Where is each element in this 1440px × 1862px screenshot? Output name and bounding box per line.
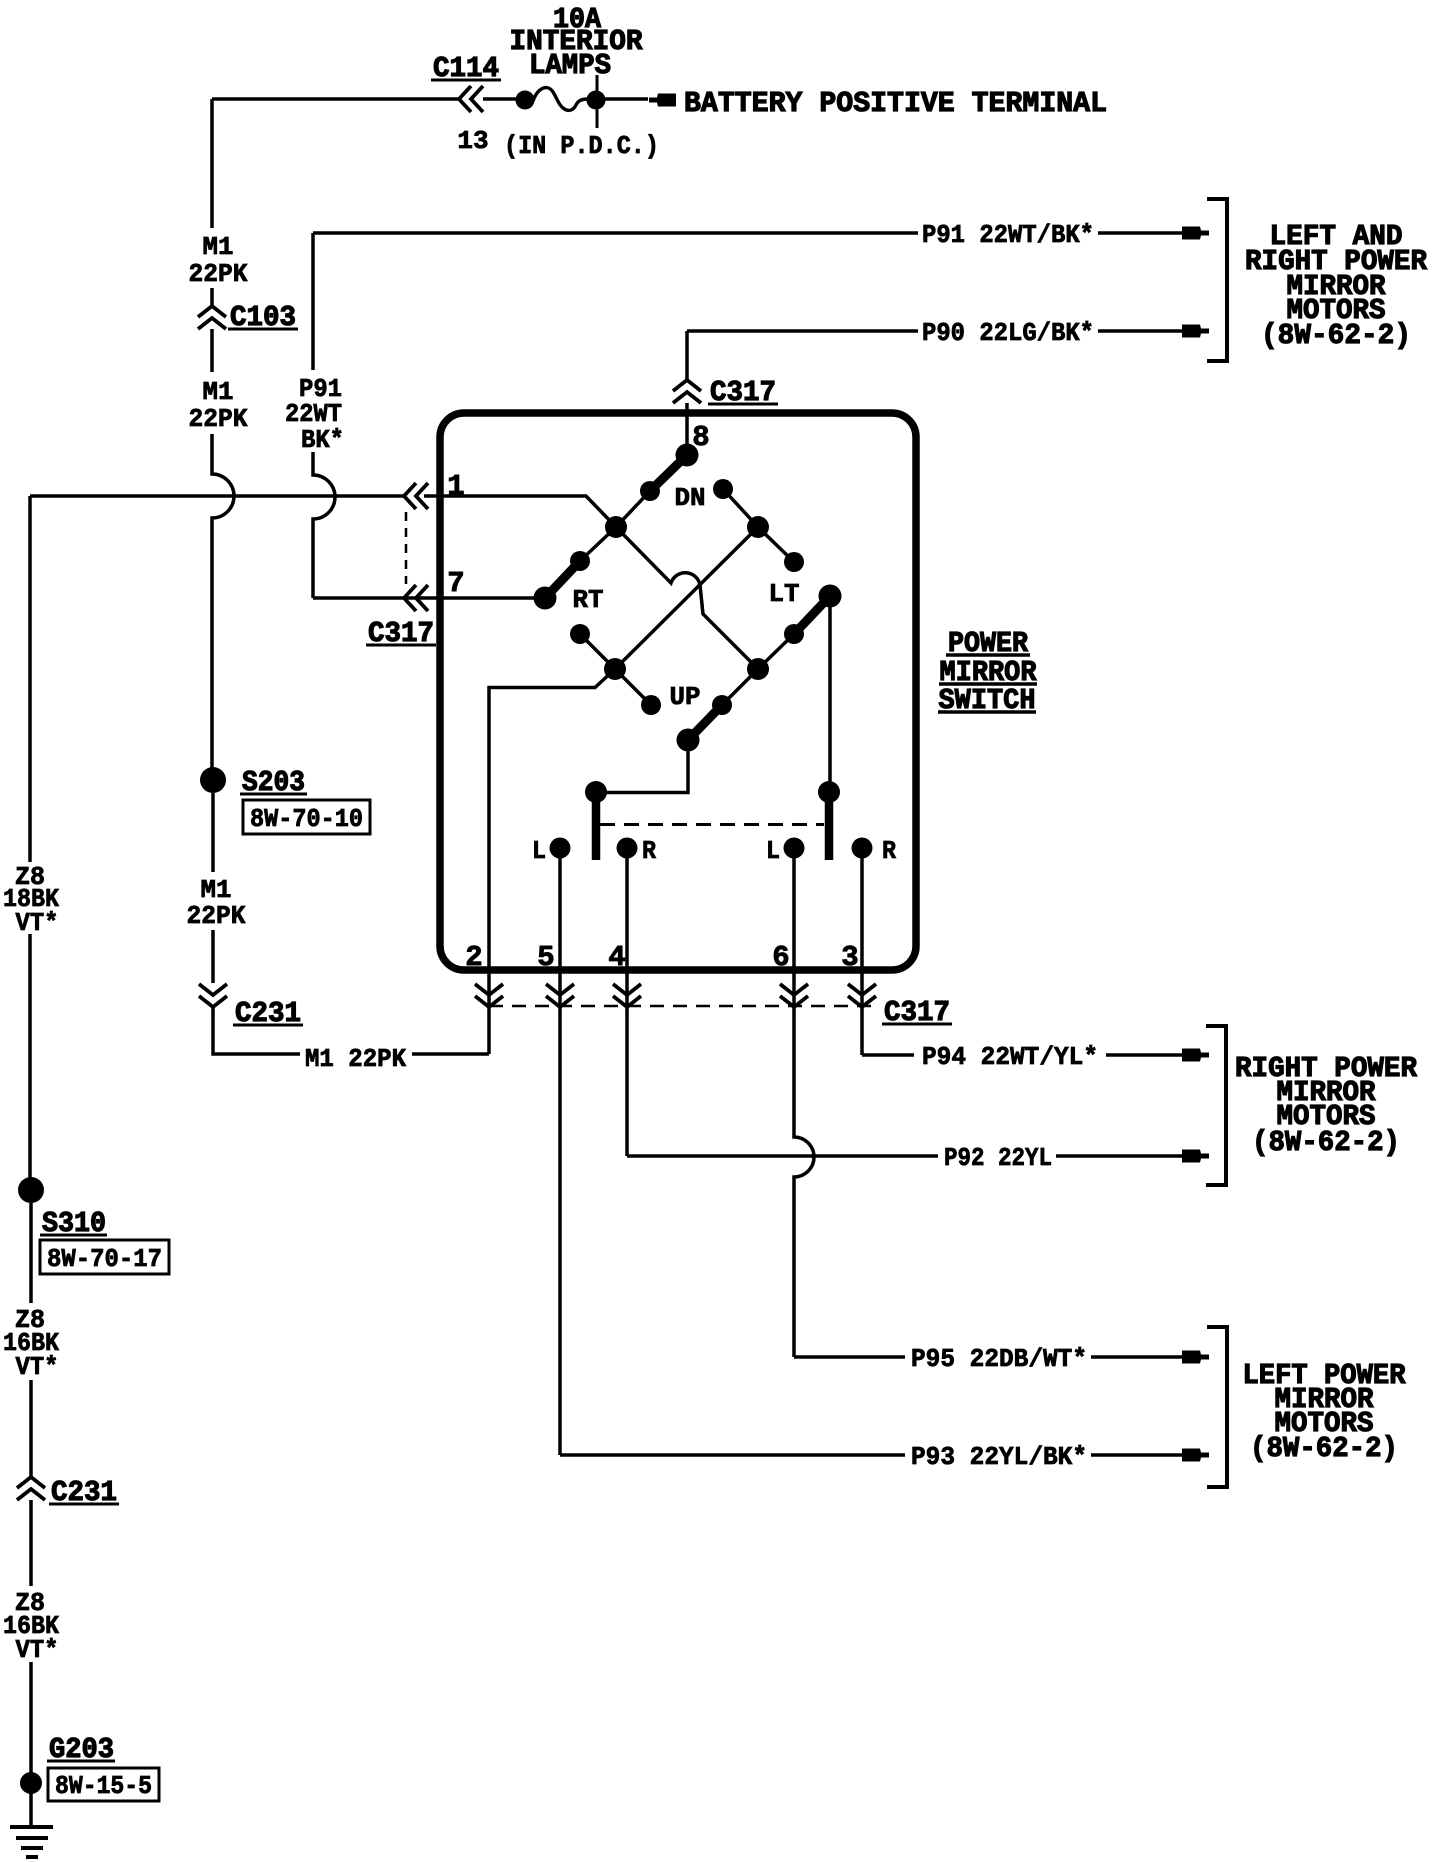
junction node UL bbox=[605, 516, 627, 538]
svg-text:P92 22YL: P92 22YL bbox=[944, 1143, 1052, 1173]
svg-text:RT: RT bbox=[573, 585, 604, 615]
wire P90 horizontal bbox=[687, 329, 918, 333]
terminal dot L (pin 6) bbox=[784, 838, 805, 859]
svg-text:5: 5 bbox=[537, 941, 554, 974]
wire M1 above C231 bbox=[211, 930, 215, 983]
UP switch pivot bbox=[677, 729, 700, 752]
UP switch contact links bbox=[615, 669, 651, 705]
DN switch contact links bbox=[616, 491, 650, 527]
svg-text:P91 22WT/BK*: P91 22WT/BK* bbox=[922, 220, 1094, 250]
right wiper bar bbox=[818, 781, 840, 803]
wire P91 horizontal bbox=[313, 231, 918, 235]
wire P94 from pin 3 bbox=[862, 1053, 918, 1057]
svg-text:BK*: BK* bbox=[301, 425, 344, 455]
mechanical link (dashed) bbox=[600, 823, 824, 826]
arrow from battery positive terminal bbox=[649, 94, 676, 107]
wire M1 with hop over Z8 wire bbox=[212, 434, 234, 768]
svg-text:1: 1 bbox=[447, 470, 464, 503]
svg-text:(8W-62-2): (8W-62-2) bbox=[1261, 319, 1411, 352]
LT switch contact links bbox=[758, 527, 794, 562]
svg-text:22PK: 22PK bbox=[187, 901, 246, 931]
svg-text:M1 22PK: M1 22PK bbox=[305, 1044, 406, 1074]
wire battery feed to arrow bbox=[604, 97, 648, 101]
junction node LL bbox=[604, 658, 626, 680]
splice S310 bbox=[18, 1177, 44, 1203]
junction node UR bbox=[747, 516, 769, 538]
DN switch contacts bbox=[640, 481, 660, 501]
wire pin 3 drop bbox=[860, 858, 864, 1055]
arrow P92 to right mirror motors bbox=[1182, 1150, 1209, 1163]
DN switch pivot (pin 8) bbox=[676, 444, 699, 467]
svg-text:3: 3 bbox=[841, 941, 858, 974]
wire pin 4 drop bbox=[625, 858, 629, 1156]
bridge diagonal B bbox=[615, 527, 758, 669]
wire pin 1 from Z8 bbox=[424, 496, 616, 527]
wire pin 7 entry bbox=[313, 596, 546, 600]
label Z8 18BK VT* bbox=[2, 862, 64, 934]
svg-text:LT: LT bbox=[769, 579, 800, 609]
wire pin 5 drop bbox=[558, 858, 562, 1455]
DN switch blade bbox=[650, 455, 687, 491]
LT switch pivot wire bbox=[828, 596, 832, 792]
RT switch contacts bbox=[570, 551, 590, 571]
svg-text:BATTERY POSITIVE TERMINAL: BATTERY POSITIVE TERMINAL bbox=[684, 87, 1107, 120]
splice S203 bbox=[200, 767, 226, 793]
label P92 22YL bbox=[938, 1142, 1056, 1169]
svg-text:22PK: 22PK bbox=[189, 404, 248, 434]
connector C114 bbox=[459, 86, 471, 112]
left wiper bar bbox=[585, 781, 607, 803]
svg-text:7: 7 bbox=[447, 567, 464, 600]
svg-text:M1: M1 bbox=[203, 232, 234, 262]
wire pin 8 into switch bbox=[685, 403, 689, 446]
svg-text:13: 13 bbox=[457, 126, 488, 156]
label P91 22WT BK* bbox=[278, 370, 348, 452]
label P90 22LG/BK* bbox=[918, 317, 1098, 344]
arrow P93 to left mirror motors bbox=[1182, 1449, 1209, 1462]
svg-text:LAMPS: LAMPS bbox=[529, 49, 611, 82]
connector C317 (pins 1,7) bbox=[404, 483, 416, 509]
svg-text:L: L bbox=[532, 836, 546, 866]
svg-text:R: R bbox=[882, 836, 896, 866]
svg-text:L: L bbox=[766, 836, 780, 866]
label Z8 16BK VT* (upper) bbox=[3, 1303, 63, 1379]
bridge diagonal A (hop over B) bbox=[616, 527, 758, 669]
wire P90 vertical to C317 bbox=[685, 331, 689, 380]
RT switch blade bbox=[545, 561, 580, 598]
svg-text:6: 6 bbox=[772, 941, 789, 974]
svg-text:(8W-62-2): (8W-62-2) bbox=[1252, 1126, 1400, 1159]
UP switch contacts bbox=[641, 695, 661, 715]
svg-text:4: 4 bbox=[608, 941, 625, 974]
svg-text:DN: DN bbox=[675, 483, 706, 513]
wire Z8 horizontal to pin 1 bbox=[30, 494, 404, 498]
label Z8 16BK VT* (lower) bbox=[3, 1586, 63, 1662]
svg-text:22PK: 22PK bbox=[189, 259, 248, 289]
svg-text:8W-70-10: 8W-70-10 bbox=[250, 804, 363, 834]
label M1 22PK (horizontal) bbox=[300, 1040, 412, 1068]
svg-text:VT*: VT* bbox=[16, 1635, 59, 1665]
svg-text:(8W-62-2): (8W-62-2) bbox=[1250, 1432, 1398, 1465]
arrow P95 to left mirror motors bbox=[1182, 1351, 1209, 1364]
label P93 22YL/BK* bbox=[906, 1441, 1091, 1468]
UP switch blade bbox=[688, 705, 722, 740]
svg-text:M1: M1 bbox=[203, 377, 234, 407]
wire Z8 below C231 bbox=[29, 1500, 33, 1586]
arrow P90 to mirror motors bbox=[1182, 325, 1209, 338]
connector C103 bbox=[198, 306, 226, 317]
wire pin 2 from bridge bbox=[489, 669, 615, 1054]
label P95 22DB/WT* bbox=[906, 1343, 1091, 1370]
label P94 22WT/YL* bbox=[914, 1041, 1106, 1068]
svg-text:R: R bbox=[642, 836, 656, 866]
wire M1 below C103 bbox=[210, 329, 214, 372]
arrow P91 to mirror motors bbox=[1182, 227, 1209, 240]
arrow P94 to right mirror motors bbox=[1182, 1049, 1209, 1062]
wire M1 below S203 bbox=[211, 793, 215, 872]
LT switch pivot bbox=[819, 585, 842, 608]
power mirror switch outline bbox=[440, 413, 916, 970]
svg-text:P94 22WT/YL*: P94 22WT/YL* bbox=[922, 1042, 1098, 1072]
connector C317 (pin 8) bbox=[673, 380, 701, 391]
wire P93 from pin 5 bbox=[560, 1453, 905, 1457]
wire P92 from pin 4 bbox=[627, 1154, 938, 1158]
bracket right power mirror motors bbox=[1206, 1026, 1226, 1185]
ground symbol bbox=[10, 1825, 53, 1829]
junction node LR bbox=[747, 658, 769, 680]
LT switch blade bbox=[794, 596, 830, 634]
label P91 22WT/BK* bbox=[918, 219, 1098, 246]
svg-text:P90 22LG/BK*: P90 22LG/BK* bbox=[922, 318, 1094, 348]
RT switch contact links bbox=[580, 527, 616, 561]
ground G203 bbox=[20, 1772, 42, 1794]
svg-text:VT*: VT* bbox=[16, 1352, 59, 1382]
connector C231 (M1 wire) bbox=[199, 984, 227, 995]
wire M1 fuse-feed horizontal bbox=[212, 97, 459, 101]
svg-text:UP: UP bbox=[670, 682, 701, 712]
svg-text:2: 2 bbox=[465, 941, 482, 974]
LT switch contacts bbox=[784, 552, 804, 572]
wire Z8 above S310 bbox=[28, 934, 32, 1178]
wire P91 vertical bbox=[313, 442, 335, 598]
wire M1 vertical upper bbox=[210, 99, 214, 228]
wire Z8 above C231 bbox=[29, 1380, 33, 1477]
terminal dot L (pin 5) bbox=[550, 838, 571, 859]
svg-text:VT*: VT* bbox=[16, 908, 59, 938]
bracket left and right power mirror motors bbox=[1207, 199, 1227, 361]
terminal dot R (pin 4) bbox=[617, 838, 638, 859]
terminal dot R (pin 3) bbox=[852, 838, 873, 859]
wire Z8 vertical upper bbox=[28, 496, 32, 862]
connector C231 (Z8 wire) bbox=[17, 1477, 45, 1488]
wire Z8 to ground bbox=[29, 1662, 33, 1825]
wire Z8 below S310 bbox=[29, 1203, 33, 1303]
svg-text:8W-15-5: 8W-15-5 bbox=[55, 1771, 152, 1801]
svg-text:P93 22YL/BK*: P93 22YL/BK* bbox=[911, 1442, 1087, 1472]
connector C317 (pins 2,5,4,6,3) bbox=[489, 1005, 876, 1008]
bracket left power mirror motors bbox=[1207, 1327, 1227, 1487]
UP switch pivot wire bbox=[596, 740, 688, 793]
wire pin 6 drop (hop over P92) bbox=[794, 858, 814, 1357]
wire M1 between label and C103 bbox=[210, 288, 214, 306]
svg-text:(IN P.D.C.): (IN P.D.C.) bbox=[504, 131, 659, 161]
svg-text:P95 22DB/WT*: P95 22DB/WT* bbox=[911, 1344, 1087, 1374]
RT switch pivot (pin 7) bbox=[534, 587, 557, 610]
fuse 13 10A (in PDC) bbox=[516, 91, 535, 110]
wire M1 lower to pin 2 feed bbox=[213, 1008, 489, 1054]
svg-text:8W-70-17: 8W-70-17 bbox=[47, 1244, 162, 1274]
wire P95 from pin 6 bbox=[794, 1355, 905, 1359]
